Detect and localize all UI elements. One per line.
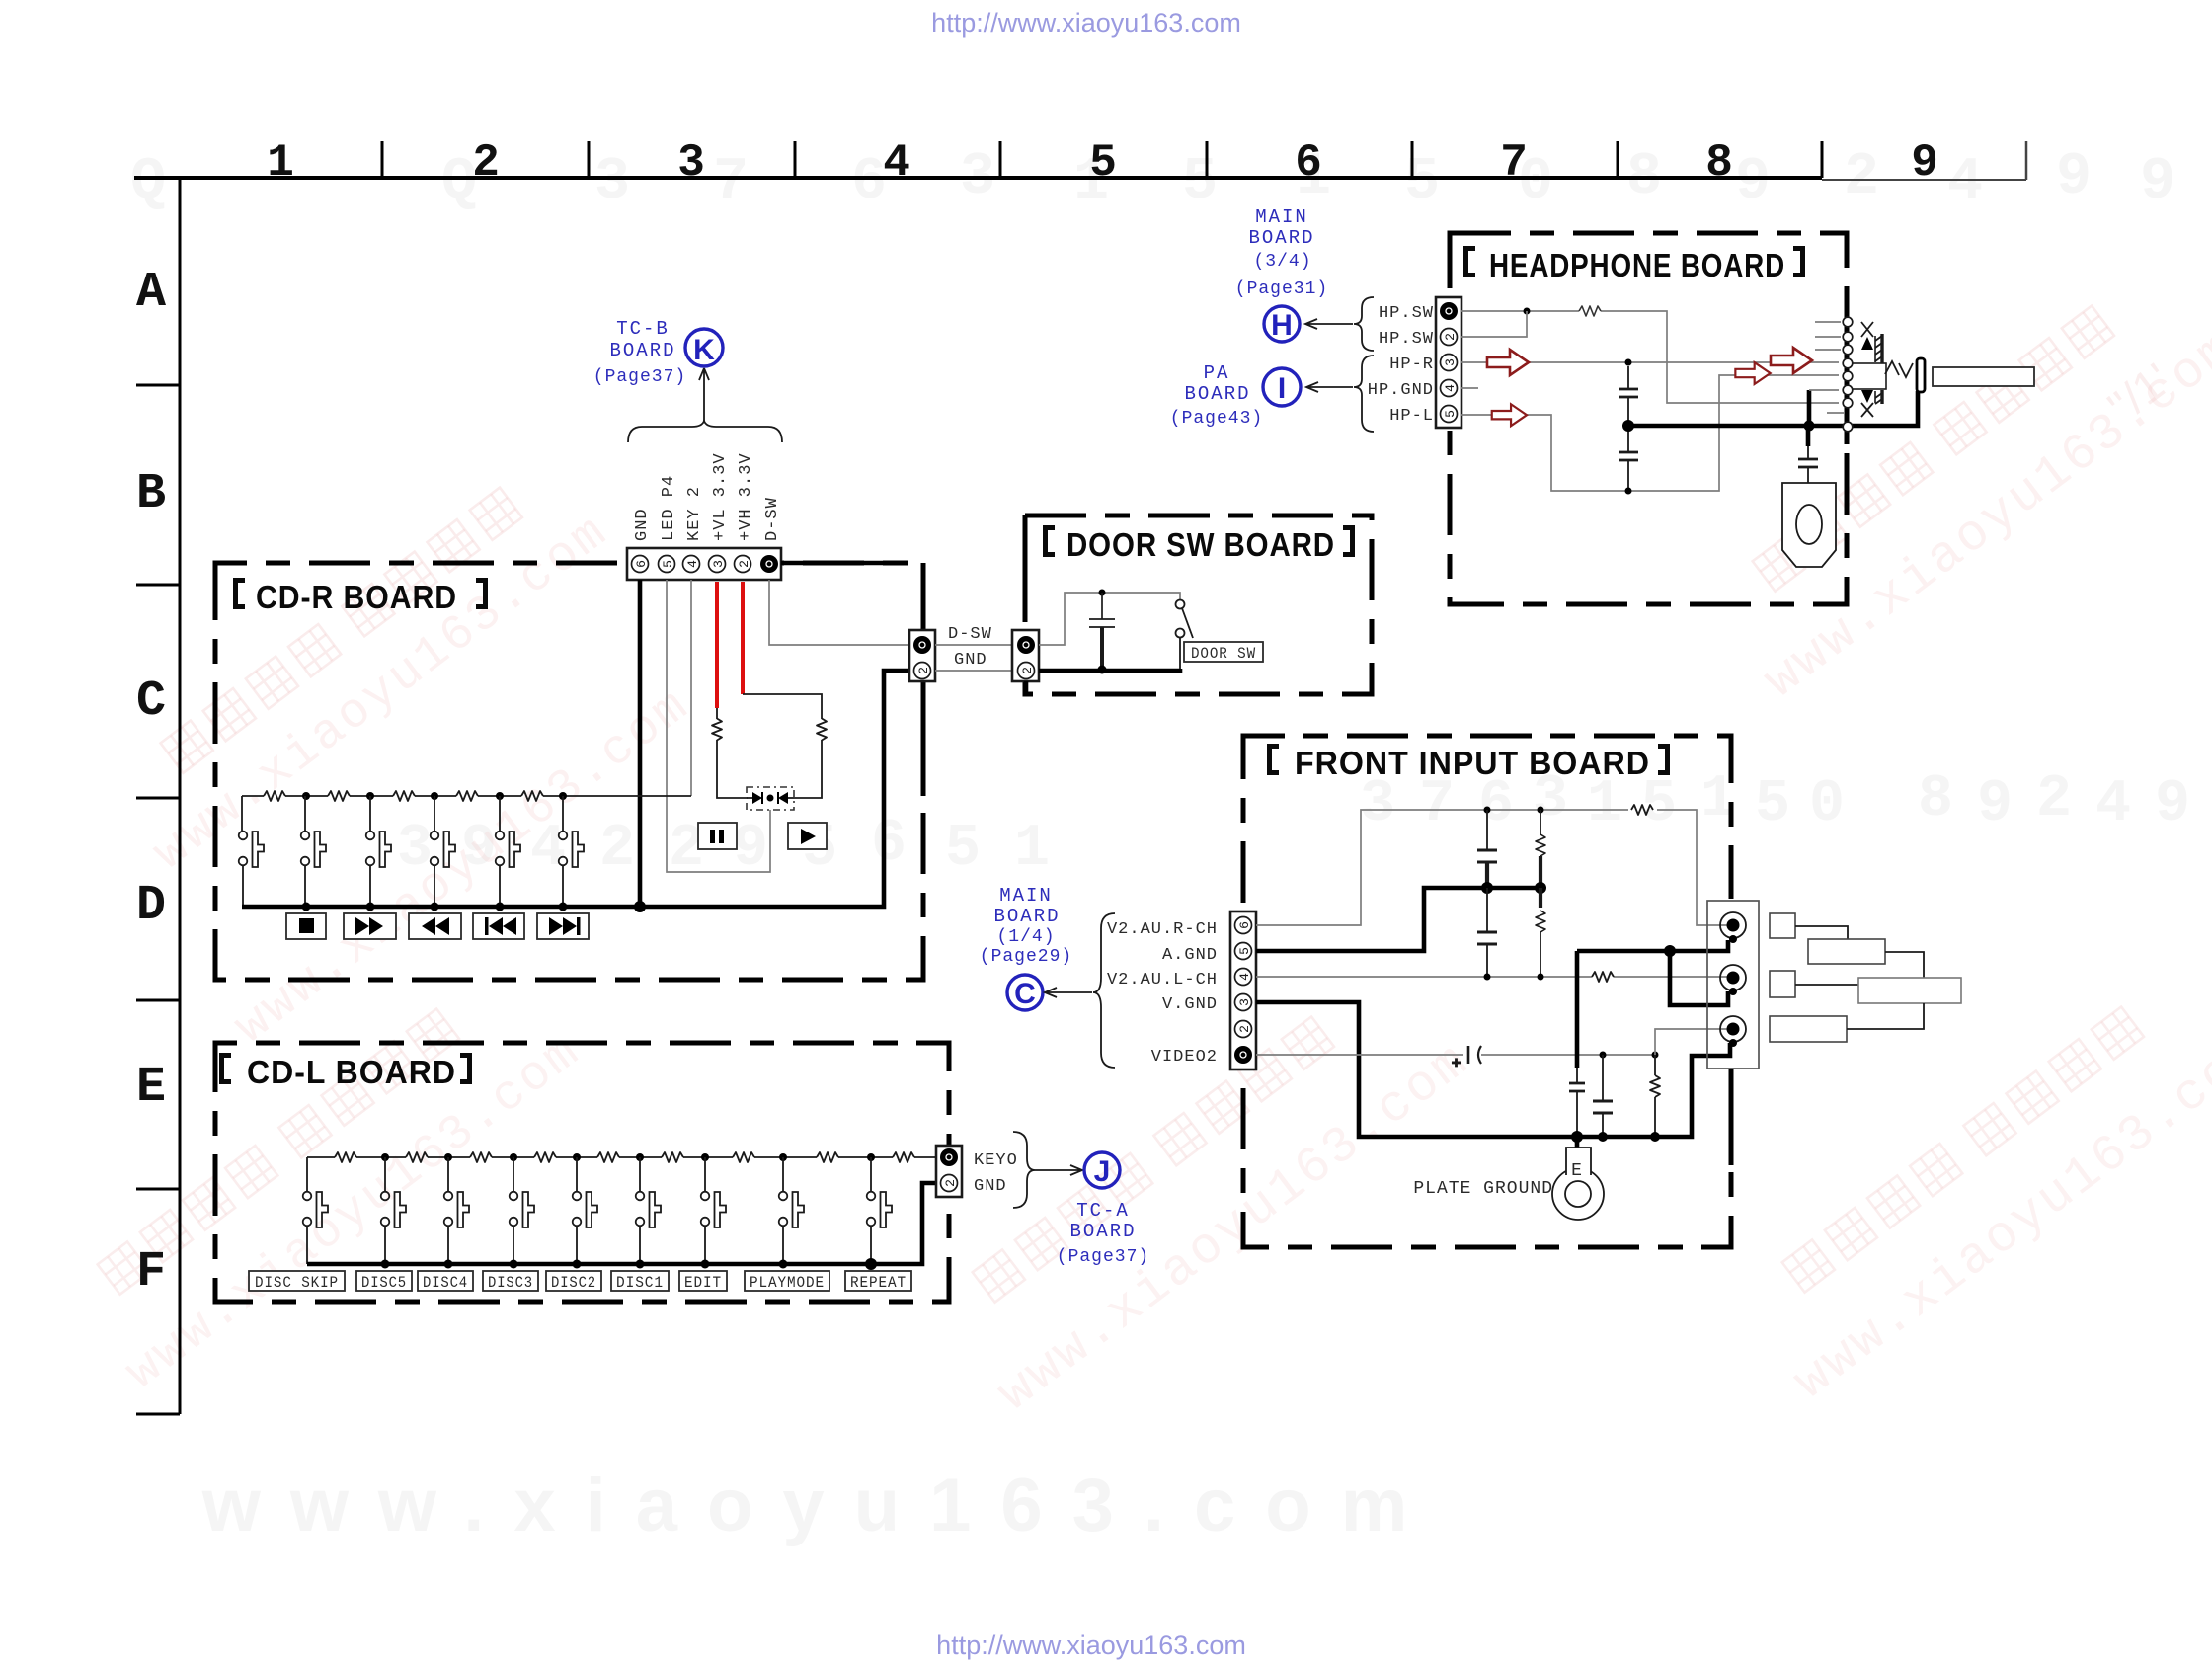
node lch1 [1484,974,1491,981]
wire V2.AU.R-CH [1256,810,1728,925]
svg-text:V2.AU.R-CH: V2.AU.R-CH [1107,920,1218,939]
svg-text:CD-R BOARD: CD-R BOARD [256,579,457,615]
LED pair dashed box [747,787,794,810]
svg-text:DISC3: DISC3 [488,1274,533,1292]
gnd elbow to rca2 [1670,951,1728,1005]
border solid segment CD-R right [921,563,926,796]
MAIN BOARD 3/4 label blue [1235,206,1328,299]
pin 3 [709,556,727,573]
connector CN-B box [1012,630,1039,681]
switch disc2 [573,1157,597,1264]
switch S5 next [496,796,520,907]
svg-text:8: 8 [1705,137,1733,189]
gnd top rail thick [1577,940,1728,951]
svg-text:J: J [1094,1155,1111,1188]
switch disc4 [444,1157,469,1264]
rca label box wide 2 [1858,978,1961,1003]
svg-text:V2.AU.L-CH: V2.AU.L-CH [1107,971,1218,990]
CN-A pin 1 [913,636,931,654]
resistor R-VH [817,719,827,741]
plug tip bar [1917,358,1925,392]
resistor RL6 [662,1152,683,1162]
node I circle [1263,368,1301,406]
jack label box [1933,367,2034,386]
svg-text:1: 1 [1587,771,1622,838]
svg-text:www.xiaoyu163.com: www.xiaoyu163.com [201,1464,1438,1547]
wire arrow to J [1035,1165,1082,1175]
brace front pins [1093,913,1115,1068]
svg-text:HP-R: HP-R [1389,356,1434,374]
jack shaft white [1848,363,1886,389]
svg-text:REPEAT: REPEAT [850,1274,907,1292]
svg-text:2: 2 [1443,333,1458,341]
svg-text:DISC1: DISC1 [616,1274,664,1292]
svg-text:5: 5 [1443,410,1458,418]
resistor RL8 [817,1152,838,1162]
key ladder wire CD-L [307,1156,936,1158]
CN-B pin 1 [1017,636,1035,654]
RCA jack 1 [1720,912,1746,943]
svg-text:HEADPHONE BOARD: HEADPHONE BOARD [1489,247,1785,283]
resistor R-rch [1631,805,1653,815]
svg-text:C: C [136,673,166,730]
pin labels front [1107,920,1218,1067]
wire arrow into H [1305,319,1353,329]
svg-text:DISC5: DISC5 [361,1274,407,1292]
svg-text:8: 8 [1918,766,1953,833]
svg-text:2: 2 [1844,144,1879,211]
svg-text:KEYO: KEYO [974,1151,1018,1170]
rca label box wide 3 [1770,1016,1847,1042]
rca label box small 1 [1770,913,1795,938]
node C circle [1007,975,1043,1010]
svg-text:+: + [1452,1056,1461,1072]
resistor RL2 [406,1152,428,1162]
svg-text:F: F [136,1244,166,1301]
svg-text:PLAYMODE: PLAYMODE [750,1274,825,1292]
node hp-r junction [1625,359,1632,366]
svg-text:HP.SW: HP.SW [1379,330,1434,349]
svg-text:5: 5 [1641,771,1677,838]
watermark ghost digits row top [130,144,2175,216]
CN-A pin 2 [914,663,932,679]
svg-text:A: A [136,265,166,321]
CD-R board title [233,578,488,615]
connector CN-FR box [1230,911,1256,1069]
ruler column numbers [267,137,1938,189]
connector CN TC-B box [627,548,781,580]
watermark diagonal pink right upper [1703,253,2212,711]
cap to plug shield [1798,426,1818,483]
wire arrow into I [1306,382,1353,392]
HP pin 1 [1440,302,1458,320]
svg-text:PLATE GROUND: PLATE GROUND [1413,1179,1553,1199]
svg-text:MAIN: MAIN [999,885,1053,907]
CDL pin 1 [940,1148,958,1166]
key label DISC1 [611,1271,669,1292]
HEADPHONE board title [1463,246,1805,283]
wire link GND [935,670,1012,672]
svg-text:4: 4 [1947,149,1983,216]
svg-text:5: 5 [1182,149,1218,216]
resistor R-hpsw [1579,306,1601,316]
wire HP-R net [1461,361,1839,363]
svg-text:A.GND: A.GND [1162,946,1218,965]
arrow HP-L left [1492,404,1527,426]
svg-text:E: E [136,1060,166,1116]
svg-text:(Page37): (Page37) [593,367,686,387]
connector stub to border [1024,681,1029,694]
svg-text:3: 3 [1443,358,1458,366]
key label DISC SKIP [249,1271,345,1292]
svg-text:TC-B: TC-B [616,318,670,340]
svg-text:DOOR SW BOARD: DOOR SW BOARD [1066,526,1335,563]
svg-text:0: 0 [1809,771,1845,838]
resistor R-f3 [1650,1055,1660,1137]
svg-text:5: 5 [1755,771,1790,838]
capacitor C-door [1089,593,1115,669]
svg-text:2: 2 [599,816,635,883]
TC-B BOARD label (blue) [593,318,686,387]
capacitor C-hp1 [1619,366,1638,422]
brace over connector pins [628,421,782,442]
ladder nodes CD-L [381,1153,875,1161]
svg-text:2: 2 [1020,667,1035,674]
svg-text:4: 4 [2095,771,2131,838]
headphone ground bus [1628,391,1918,426]
diode zener bottom [1861,390,1873,417]
border segment behind contacts [1845,296,1850,444]
wire HP-L net [1461,375,1839,491]
svg-text:HP.GND: HP.GND [1368,381,1434,400]
ground bus wire CD-R [242,671,910,907]
svg-text:LED P4: LED P4 [660,475,678,541]
svg-text:(Page43): (Page43) [1170,409,1263,429]
brace pins 1-2 [1354,297,1374,351]
node lch2 [1538,974,1544,981]
switch repeat [867,1157,892,1264]
svg-text:+VH 3.3V: +VH 3.3V [737,452,755,541]
svg-text:C: C [1014,978,1036,1010]
brace pins 3-5 [1354,356,1374,432]
key cap play [788,823,827,849]
svg-text:2: 2 [943,1179,958,1187]
node video1 [1600,1052,1607,1059]
svg-text:1: 1 [267,137,294,189]
CD-L board title [219,1053,472,1090]
DOOR SW board border [1025,515,1372,694]
svg-text:D: D [136,878,166,934]
svg-text:I: I [1278,372,1286,405]
border ruler horizontal line [134,176,1822,180]
wire A.GND thick [1256,888,1540,951]
svg-text:http://www.xiaoyu163.com: http://www.xiaoyu163.com [936,1630,1246,1660]
node hp.sw junction [1524,308,1531,315]
resistor R-lch [1592,972,1614,982]
resistor R-f2 [1536,888,1545,977]
svg-text:B: B [136,466,166,522]
node LED center [767,795,774,802]
switch S1 stop [239,796,264,907]
switch S2 ff [301,796,326,907]
switch S3 rew [366,796,391,907]
arrow HP-L right [1735,362,1770,384]
LED D2 [778,792,794,804]
pin 6 [632,556,650,573]
CDL pin 2 [941,1175,959,1192]
svg-text:6: 6 [1295,137,1322,189]
RCA jack 2 [1720,965,1746,995]
switch S4 prev [431,796,455,907]
MAIN BOARD 1/4 label blue [980,885,1072,967]
svg-text:(Page37): (Page37) [1057,1247,1149,1267]
gnd riser to sleeve contact [1809,390,1839,426]
key cap ff [344,913,396,939]
switch disc3 [510,1157,534,1264]
key label DISC4 [418,1271,473,1292]
CD-R board border [215,563,923,980]
svg-text:7: 7 [1419,771,1455,838]
node H circle [1264,306,1300,342]
arrow HP-R right [1771,348,1812,373]
svg-text:TC-A: TC-A [1076,1200,1130,1222]
svg-text:HP.SW: HP.SW [1379,304,1434,323]
resistor RK4 [456,791,478,801]
svg-text:(1/4): (1/4) [996,927,1055,947]
svg-text:6: 6 [1237,921,1252,929]
pin 4 [683,556,701,573]
svg-text:GND: GND [633,508,652,541]
rca label box wide 1 [1808,939,1885,964]
switch S6 [559,796,584,907]
watermark diagonal pink right lower [1733,954,2212,1412]
wire arrow to K [699,368,709,421]
wire V.GND thick [1256,1002,1730,1137]
node gnd mid [1804,421,1815,432]
FR pin 2 [1235,1021,1253,1038]
HP pin 2 [1441,329,1459,346]
wire pin1 D-SW [769,580,910,645]
svg-text:4: 4 [685,560,700,568]
capacitor C-hp2 [1619,430,1638,488]
svg-text:7: 7 [1500,137,1528,189]
FR pin 5 [1235,943,1253,960]
wire VIDEO2 [1256,1054,1655,1056]
svg-text:3: 3 [594,149,630,216]
gnd trunk vertical [1569,951,1585,1137]
pin 2 [735,556,752,573]
svg-text:DISC SKIP: DISC SKIP [255,1274,339,1292]
spring zigzag [1885,361,1913,377]
bus junction nodes [302,901,647,912]
svg-text:6: 6 [851,149,887,216]
resistor R-VL [712,719,722,741]
pin 1 [760,555,778,573]
svg-text:Q: Q [130,149,166,216]
key cap pause [698,823,737,849]
svg-text:HP-L: HP-L [1389,407,1434,426]
rca label link 1 [1795,926,1848,939]
node gnd rail [1664,945,1676,957]
wire link D-SW [935,644,1012,646]
switch edit [701,1157,726,1264]
resistor RL9 [893,1152,914,1162]
DOOR SW label box [1184,642,1263,663]
svg-text:4: 4 [883,137,910,189]
pin labels HP [1368,304,1434,426]
svg-text:(Page29): (Page29) [980,947,1072,967]
arrow HP-R left [1487,350,1529,375]
plate ground lug [1552,1137,1604,1220]
FR pin 4 [1235,969,1253,986]
key label REPEAT [845,1271,911,1292]
FRONT INPUT board border [1243,736,1731,1247]
svg-text:GND: GND [954,651,987,670]
svg-text:FRONT INPUT BOARD: FRONT INPUT BOARD [1295,745,1650,781]
svg-text:5: 5 [945,816,981,883]
watermark ghost digits row middle [397,766,2190,883]
wire HP.GND stub [1461,387,1478,389]
svg-text:H: H [1271,309,1293,342]
rca label link 2 [1885,952,1924,978]
watermark diagonal pink left upper [72,452,732,1057]
svg-text:6: 6 [871,811,907,878]
node K circle [685,329,723,366]
svg-text:5: 5 [1404,149,1440,216]
wire HP.SW net [1461,311,1839,403]
node hp gnd big [1622,420,1634,432]
svg-text:BOARD: BOARD [993,906,1060,927]
rca label link 3 [1795,984,1858,986]
ground bus CD-L [307,1183,936,1264]
svg-text:2: 2 [1237,1025,1252,1033]
svg-text:V.GND: V.GND [1162,995,1218,1014]
key label DISC3 [483,1271,538,1292]
resistor RK1 [264,791,285,801]
svg-text:CD-L BOARD: CD-L BOARD [247,1054,456,1090]
svg-text:D-SW: D-SW [763,497,782,541]
resistor RL4 [534,1152,556,1162]
ruler row letters [136,265,166,1301]
svg-text:http://www.xiaoyu163.com: http://www.xiaoyu163.com [931,8,1241,38]
node cap top [1099,590,1106,596]
bus nodes CD-L [381,1258,878,1270]
CN-B pin 2 [1018,663,1036,679]
svg-text:DOOR SW: DOOR SW [1191,645,1256,663]
svg-text:K: K [693,334,715,366]
wire pin3 to resistor [717,708,747,798]
HP pin 3 [1441,355,1459,371]
svg-text:9: 9 [1911,137,1938,189]
headphone plug sleeve drawing [1782,483,1836,567]
RCA jack block [1707,901,1759,1069]
resistor RL5 [597,1152,619,1162]
wire top link to connector [781,561,892,566]
watermark diagonal pink center bottom [931,958,1480,1424]
svg-text:BOARD: BOARD [1069,1221,1136,1242]
svg-text:3: 3 [711,560,726,568]
CD-L board border [215,1043,949,1302]
switch disc1 [636,1157,661,1264]
svg-text:7: 7 [713,149,749,216]
pin 5 [659,556,676,573]
wire pin2 elbow to resistor [743,694,822,798]
door switch contacts [1176,600,1194,670]
svg-text:5: 5 [661,560,675,568]
key cap next [537,913,589,939]
wire GND pin6 [638,580,643,907]
key cap rew [409,913,461,939]
svg-text:1: 1 [1014,816,1050,883]
brace CDL [1013,1132,1035,1208]
wire +VH pin2 red [741,582,745,694]
PA BOARD label blue [1170,362,1263,429]
svg-text:PA: PA [1204,362,1230,384]
FRONT INPUT board title [1267,744,1670,781]
node cap bottom [1098,666,1107,674]
key label DISC2 [546,1271,601,1292]
svg-text:+VL 3.3V: +VL 3.3V [711,452,730,541]
svg-text:2: 2 [2036,766,2072,833]
svg-text:4: 4 [1237,973,1252,981]
resistor RL3 [470,1152,492,1162]
svg-text:DISC4: DISC4 [423,1274,468,1292]
watermark diagonal pink left lower [65,956,592,1402]
node agnd1 [1481,882,1493,894]
capacitor C-f3 [1593,1055,1613,1137]
wire HP.SW pin2 [1461,311,1527,337]
key resistor ladder wire [242,795,691,797]
FR pin 3 [1235,994,1253,1011]
contact stubs [1815,322,1845,413]
connector CN-A box [909,630,935,681]
switch disc skip [303,1157,328,1264]
wire V2.AU.L-CH [1256,976,1728,978]
svg-text:5: 5 [1089,137,1117,189]
wire KEY pin4 [690,580,692,796]
svg-text:(Page31): (Page31) [1235,279,1328,299]
connector CN-HP box [1436,297,1461,428]
key label DISC5 [356,1271,412,1292]
node agnd2 [1535,882,1546,894]
resistor R-f1 [1536,810,1545,888]
capacitor C-f1 [1477,810,1497,888]
svg-text:BOARD: BOARD [1248,227,1314,249]
diode zener top [1861,322,1873,350]
svg-text:2: 2 [916,667,931,674]
key label EDIT [679,1271,727,1292]
svg-text:2: 2 [472,137,500,189]
switch playmode [779,1157,804,1264]
wire +VL pin3 red [715,582,719,708]
svg-text:E: E [1571,1161,1583,1181]
ruler left ticks [136,385,180,1189]
svg-text:9: 9 [2155,771,2190,838]
wire LED pin5 [667,580,770,872]
svg-text:5: 5 [1237,947,1252,955]
svg-text:6: 6 [634,560,649,568]
wire arrow into C [1045,988,1092,997]
node J circle [1084,1152,1120,1188]
FR pin 6 [1235,917,1253,934]
border ruler vertical line [136,178,180,1414]
LED D1 [747,792,762,804]
svg-text:KEY 2: KEY 2 [685,486,704,541]
jack contact circles [1843,317,1853,432]
resistor RK5 [521,791,543,801]
svg-text:2: 2 [737,560,751,568]
capacitor C-f2 [1477,888,1497,977]
